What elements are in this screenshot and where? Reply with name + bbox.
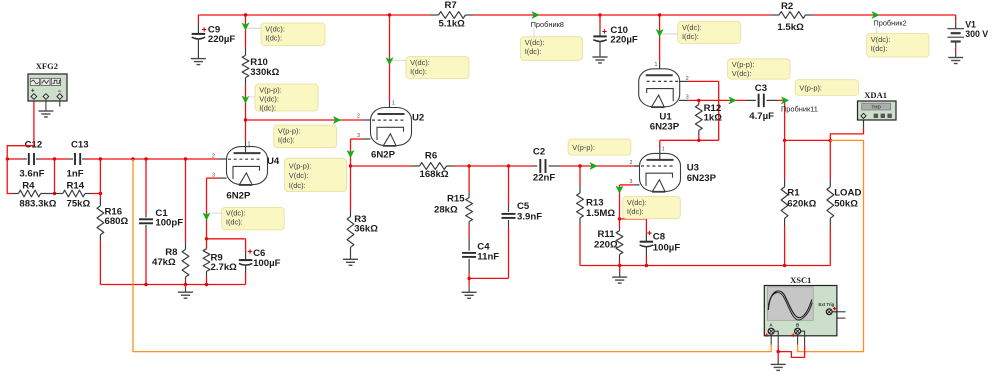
svg-text:5.1kΩ: 5.1kΩ bbox=[439, 19, 466, 30]
node dot R12 bottom bbox=[697, 139, 700, 142]
node dot output node bbox=[783, 139, 786, 142]
svg-text:R11: R11 bbox=[598, 229, 616, 240]
svg-text:I(dc):: I(dc): bbox=[289, 181, 306, 190]
label 6N23P of U1 bbox=[650, 122, 680, 133]
wire rail to U1 plate bbox=[659, 15, 661, 74]
oscilloscope XSC1 bbox=[764, 286, 845, 337]
svg-text:R13: R13 bbox=[586, 197, 604, 208]
ground below XSC1 bbox=[771, 364, 786, 370]
probe box V(dc)/I(dc) near C10 bbox=[521, 37, 583, 61]
wire R8 top section bbox=[185, 159, 187, 242]
svg-text:THD: THD bbox=[871, 105, 881, 110]
node dot R1 bottom bbox=[783, 264, 786, 267]
svg-text:330kΩ: 330kΩ bbox=[250, 67, 279, 78]
wire U3 plate up bbox=[659, 140, 661, 147]
svg-text:V(dc):: V(dc): bbox=[410, 58, 430, 67]
node dot R8 bottom bbox=[184, 283, 187, 286]
wire XFG2 to input loop bbox=[7, 99, 34, 194]
svg-text:V(dc):: V(dc): bbox=[627, 198, 647, 207]
svg-text:28kΩ: 28kΩ bbox=[434, 204, 458, 215]
svg-text:300 V: 300 V bbox=[965, 29, 988, 39]
label 6N2P of U2 bbox=[371, 150, 396, 161]
svg-text:4.7µF: 4.7µF bbox=[749, 111, 774, 122]
probe arrow right Пробник8 bbox=[532, 12, 539, 19]
node dot R11 bottom bbox=[618, 264, 621, 267]
svg-text:+: + bbox=[31, 88, 35, 94]
node dot R11 top bbox=[618, 217, 621, 220]
probe box V(dc)/I(dc) near C9-R10 bbox=[261, 23, 325, 46]
node dot R9 bottom bbox=[205, 283, 208, 286]
label XDA1 bbox=[864, 90, 887, 100]
probe arrow right Пробник2 bbox=[872, 12, 879, 19]
svg-text:I(dc):: I(dc): bbox=[226, 218, 243, 227]
node dot U4 plate branch bbox=[244, 118, 247, 121]
svg-text:3.6nF: 3.6nF bbox=[19, 169, 44, 180]
svg-text:1: 1 bbox=[655, 62, 658, 68]
wire U2 cathode bbox=[351, 139, 371, 166]
probe box V(p-p) above U3 grid bbox=[568, 139, 631, 155]
wire C1 top section bbox=[145, 159, 147, 214]
resistor R12 1k bbox=[695, 100, 722, 140]
distortion analyzer XDA1 bbox=[858, 101, 897, 120]
node dot rail-U1 bbox=[658, 13, 661, 16]
svg-text:1kΩ: 1kΩ bbox=[704, 113, 723, 124]
svg-text:Пробник11: Пробник11 bbox=[781, 104, 818, 113]
wire C13 node down bbox=[99, 159, 101, 199]
svg-text:V(p-p):: V(p-p): bbox=[799, 84, 822, 93]
capacitor C2 22nF bbox=[533, 147, 561, 184]
wire R16 to bottom rail bbox=[99, 241, 101, 285]
label 6N2P of U4 bbox=[226, 191, 251, 202]
svg-text:100pF: 100pF bbox=[155, 217, 183, 228]
resistor R6 168k bbox=[412, 151, 454, 181]
capacitor C13 1nF bbox=[55, 140, 89, 180]
svg-text:XSC1: XSC1 bbox=[790, 275, 811, 285]
svg-text:C13: C13 bbox=[71, 140, 89, 151]
svg-text:R1: R1 bbox=[787, 188, 800, 199]
resistor R1 620k bbox=[781, 140, 816, 265]
capacitor C9 220uF bbox=[192, 15, 236, 59]
svg-text:U2: U2 bbox=[412, 113, 424, 124]
wire R9 top to C6 bbox=[207, 239, 246, 252]
wire scope B leads bbox=[798, 331, 805, 345]
label U2 bbox=[412, 113, 424, 124]
svg-text:6N23P: 6N23P bbox=[687, 173, 717, 184]
svg-text:1: 1 bbox=[248, 142, 251, 148]
svg-text:V(dc):: V(dc): bbox=[682, 23, 702, 32]
svg-text:6N23P: 6N23P bbox=[650, 122, 680, 133]
svg-text:V(p-p):: V(p-p): bbox=[572, 143, 595, 152]
probe box V(p-p) right of C3 bbox=[795, 80, 858, 96]
triode U1 6N23P mirrored bbox=[639, 62, 689, 108]
resistor R15 28k bbox=[434, 166, 473, 226]
svg-text:220µF: 220µF bbox=[208, 34, 236, 45]
resistor R10 330k bbox=[242, 47, 280, 85]
resistor R14 75k bbox=[55, 180, 101, 209]
node dot C12-C13 bbox=[53, 157, 56, 160]
svg-text:R15: R15 bbox=[447, 194, 465, 205]
function generator XFG2 bbox=[28, 74, 67, 101]
label 6N23P of U3 bbox=[687, 173, 717, 184]
svg-text:11nF: 11nF bbox=[477, 252, 499, 263]
svg-text:75kΩ: 75kΩ bbox=[67, 199, 91, 210]
wire input row bbox=[7, 158, 218, 160]
svg-text:3: 3 bbox=[630, 179, 633, 185]
svg-text:C8: C8 bbox=[653, 232, 666, 243]
wire XFG2 minus stub bbox=[59, 99, 61, 107]
probe arrow right to U3 grid bbox=[590, 163, 597, 170]
svg-text:V(p-p):: V(p-p): bbox=[289, 162, 312, 171]
wire C5 top bbox=[508, 166, 510, 205]
svg-text:3: 3 bbox=[686, 95, 689, 101]
label Пробник8 bbox=[531, 20, 564, 37]
probe box V(p-p)/V(dc)/I(dc) below R10 bbox=[247, 84, 319, 112]
wire rail2 to LOAD bottom bbox=[620, 265, 831, 267]
probe leader line bbox=[247, 27, 262, 29]
node dot C8 bottom bbox=[645, 264, 648, 267]
node dot C13-R16 bbox=[99, 157, 102, 160]
wire R11 top to C8 bbox=[620, 219, 647, 233]
ground below V1 bbox=[948, 58, 963, 64]
svg-text:1.5MΩ: 1.5MΩ bbox=[586, 208, 615, 219]
wire bottom-left ground rail bbox=[100, 284, 245, 286]
ground bottom-left rail bbox=[178, 292, 193, 298]
node dot input left bbox=[6, 157, 9, 160]
wire XDA1 link bbox=[830, 120, 863, 140]
wire ground stub bottom-left bbox=[185, 285, 187, 293]
wire R15 to C4 bbox=[468, 226, 470, 237]
svg-text:XDA1: XDA1 bbox=[864, 90, 887, 100]
probe arrow down on U2 plate wire bbox=[386, 58, 393, 65]
capacitor C8 100uF bbox=[640, 231, 681, 266]
wire R10 to U4 plate bbox=[245, 85, 247, 141]
wire orange input to scope A bbox=[133, 159, 771, 352]
wire R13 to bottom rail bbox=[580, 224, 620, 266]
svg-text:50kΩ: 50kΩ bbox=[834, 199, 858, 210]
svg-text:36kΩ: 36kΩ bbox=[354, 223, 378, 234]
wire C4 bottom bbox=[468, 273, 470, 286]
wire U1 cathode row bbox=[679, 99, 746, 101]
label XFG2 bbox=[36, 61, 58, 71]
capacitor C12 3.6nF bbox=[19, 140, 44, 180]
svg-text:R6: R6 bbox=[425, 151, 437, 162]
label Пробник2 bbox=[873, 18, 906, 33]
ground below R3 bbox=[343, 259, 358, 265]
wire output row bbox=[351, 165, 640, 167]
wire U3 cathode bbox=[620, 185, 635, 219]
probe box V(dc)/I(dc) on U2 plate bbox=[392, 57, 469, 79]
label Пробник11 bbox=[781, 104, 818, 113]
resistor R2 bbox=[771, 1, 813, 33]
capacitor C3 4.7uF bbox=[746, 83, 777, 122]
probe arrow down on U4 cathode bbox=[203, 213, 210, 220]
svg-text:R14: R14 bbox=[67, 180, 85, 191]
resistor R4 883.3k bbox=[12, 180, 57, 209]
svg-text:V(p-p):: V(p-p): bbox=[278, 127, 301, 136]
resistor R8 47k bbox=[152, 242, 189, 281]
triode U2 6N2P bbox=[357, 101, 412, 147]
triode U4 6N2P bbox=[212, 141, 268, 185]
triode U3 6N23P bbox=[630, 146, 681, 192]
svg-text:V(dc):: V(dc): bbox=[871, 35, 891, 44]
capacitor C10 220uF bbox=[593, 15, 638, 57]
svg-text:V(dc):: V(dc): bbox=[259, 94, 279, 103]
svg-text:680Ω: 680Ω bbox=[105, 216, 129, 227]
wire rail to R10 bbox=[245, 15, 247, 47]
svg-text:220Ω: 220Ω bbox=[594, 240, 618, 251]
node dot R14 right bbox=[99, 192, 102, 195]
svg-text:100µF: 100µF bbox=[653, 243, 681, 254]
svg-text:220µF: 220µF bbox=[610, 34, 638, 45]
wire C3 to output node bbox=[777, 100, 785, 140]
resistor R11 220 bbox=[594, 219, 623, 266]
svg-text:I(dc):: I(dc): bbox=[871, 44, 888, 53]
wire top B+ rail left section bbox=[198, 14, 955, 16]
svg-text:2: 2 bbox=[357, 114, 360, 120]
svg-text:168kΩ: 168kΩ bbox=[420, 169, 449, 180]
capacitor C5 3.9nF bbox=[502, 201, 543, 228]
svg-text:Ext Trig: Ext Trig bbox=[819, 302, 835, 307]
svg-text:I(dc):: I(dc): bbox=[682, 32, 699, 41]
svg-text:V(dc):: V(dc): bbox=[226, 209, 246, 218]
svg-text:V(dc):: V(dc): bbox=[265, 24, 285, 33]
svg-text:U3: U3 bbox=[687, 162, 699, 173]
wire R12 bottom row bbox=[660, 81, 719, 140]
svg-text:47kΩ: 47kΩ bbox=[152, 257, 176, 268]
svg-text:V1: V1 bbox=[965, 20, 976, 30]
node dot scope ground node bbox=[777, 350, 780, 353]
wire output node to LOAD node bbox=[785, 139, 831, 141]
probe box V(p-p)/V(dc) near U1 bbox=[728, 59, 790, 79]
svg-text:1: 1 bbox=[392, 101, 395, 107]
svg-text:100µF: 100µF bbox=[253, 258, 281, 269]
probe arrow down on U1 plate wire bbox=[656, 30, 663, 37]
probe box V(dc)/I(dc) near U4 cathode bbox=[208, 207, 285, 230]
probe box V(dc)/I(dc) on U1 plate bbox=[678, 22, 741, 44]
svg-text:V(dc):: V(dc): bbox=[289, 171, 309, 180]
svg-text:U4: U4 bbox=[267, 156, 280, 167]
resistor R9 2.7k bbox=[203, 239, 237, 285]
ground below XFG2 bbox=[38, 111, 53, 117]
wire C6 bottom bbox=[245, 272, 247, 285]
svg-text:V(p-p):: V(p-p): bbox=[732, 60, 755, 69]
wire U1 grid bbox=[679, 80, 719, 82]
probe leader line U1 bbox=[661, 33, 678, 35]
svg-text:I(dc):: I(dc): bbox=[410, 67, 427, 76]
wire orange output to scope B bbox=[798, 140, 864, 351]
svg-text:I(dc):: I(dc): bbox=[525, 47, 542, 56]
svg-text:1.5kΩ: 1.5kΩ bbox=[777, 22, 804, 33]
probe arrow right Poбник11 bbox=[782, 97, 789, 104]
svg-text:620kΩ: 620kΩ bbox=[787, 199, 816, 210]
svg-text:R7: R7 bbox=[445, 0, 457, 11]
probe arrow down on R10 wire bbox=[242, 96, 249, 103]
svg-text:V(dc):: V(dc): bbox=[732, 69, 752, 78]
resistor R16 680 bbox=[97, 199, 129, 241]
node dot rail-C10 bbox=[598, 13, 601, 16]
svg-text:1: 1 bbox=[662, 147, 665, 153]
svg-text:Пробник2: Пробник2 bbox=[873, 18, 906, 27]
label U3 bbox=[687, 162, 699, 173]
node dot R15 top bbox=[467, 164, 470, 167]
probe arrow right before C3 bbox=[729, 97, 736, 104]
probe arrow down on U3 cathode bbox=[616, 186, 623, 193]
svg-text:XFG2: XFG2 bbox=[36, 61, 58, 71]
capacitor C4 11nF bbox=[462, 236, 499, 273]
svg-text:I(dc):: I(dc): bbox=[627, 207, 644, 216]
wire scope ground stub bbox=[777, 352, 779, 365]
node dot R8 top bbox=[184, 157, 187, 160]
wire U4 plate to U2 grid bbox=[246, 119, 371, 121]
ground below C9 bbox=[191, 59, 206, 65]
wire U4 cathode down bbox=[207, 178, 219, 239]
wire ground stub rail2 bbox=[619, 266, 621, 278]
node dot C1 bottom bbox=[144, 283, 147, 286]
svg-text:6N2P: 6N2P bbox=[371, 150, 396, 161]
ground below rail2 bbox=[612, 277, 627, 283]
label U1 bbox=[659, 112, 672, 123]
svg-text:C3: C3 bbox=[755, 83, 767, 94]
wire C4-C5 bottom link bbox=[469, 228, 508, 278]
probe box V(p-p)/V(dc)/I(dc) at U2 cathode node bbox=[285, 158, 347, 191]
svg-text:1nF: 1nF bbox=[67, 169, 84, 180]
svg-text:I(dc):: I(dc): bbox=[265, 33, 282, 42]
node dot output row left bbox=[349, 164, 352, 167]
node dot R13 top bbox=[578, 164, 581, 167]
svg-text:2.7kΩ: 2.7kΩ bbox=[211, 262, 238, 273]
svg-text:I(dc):: I(dc): bbox=[278, 136, 295, 145]
probe box V(dc)/I(dc) near V1 bbox=[867, 34, 930, 58]
svg-text:Пробник8: Пробник8 bbox=[531, 20, 564, 29]
node dot LOAD top node bbox=[829, 139, 832, 142]
wire R8 bottom bbox=[185, 281, 187, 285]
node dot C4 ground node bbox=[467, 277, 470, 280]
probe arrow down on U2 cathode bbox=[347, 151, 354, 158]
wire C1 bottom section bbox=[145, 229, 147, 285]
resistor R13 1.5M bbox=[577, 166, 616, 224]
wire scope B to ground jog bbox=[778, 345, 804, 358]
svg-text:22nF: 22nF bbox=[533, 173, 556, 184]
svg-text:6N2P: 6N2P bbox=[226, 191, 251, 202]
svg-text:2: 2 bbox=[630, 160, 633, 166]
svg-text:I(dc):: I(dc): bbox=[259, 103, 276, 112]
node dot rail-R10 bbox=[244, 13, 247, 16]
svg-text:C2: C2 bbox=[533, 147, 545, 158]
probe arrow down below rail at R10 bbox=[242, 23, 249, 30]
ground below C4 bbox=[462, 286, 477, 298]
node dot C5 top bbox=[507, 164, 510, 167]
probe box V(p-p)/I(dc) right of U4 plate bbox=[274, 125, 337, 148]
wire C12 node down bbox=[54, 159, 56, 194]
capacitor C6 100uF bbox=[239, 248, 281, 272]
probe arrow right to U2 grid bbox=[334, 117, 341, 124]
capacitor C1 100pF bbox=[139, 208, 183, 229]
wire scope A leads bbox=[771, 331, 778, 351]
svg-text:3: 3 bbox=[357, 133, 360, 139]
power source V1 300V bbox=[947, 15, 988, 58]
svg-text:R2: R2 bbox=[781, 1, 793, 12]
resistor R3 36k bbox=[347, 166, 378, 259]
label XSC1 bbox=[790, 275, 811, 285]
svg-text:R4: R4 bbox=[22, 180, 35, 191]
node dot orange branch bbox=[131, 157, 134, 160]
probe box V(dc)/I(dc) near U3 cathode bbox=[623, 197, 681, 219]
svg-text:3.9nF: 3.9nF bbox=[517, 211, 542, 222]
node dot C1 top bbox=[144, 157, 147, 160]
wire XFG2 common to ground bbox=[45, 99, 47, 111]
node dot R12 top bbox=[697, 99, 700, 102]
resistor R7 bbox=[430, 0, 473, 30]
svg-text:V(dc):: V(dc): bbox=[525, 38, 545, 47]
wire rail to U2 plate bbox=[389, 15, 391, 114]
node dot rail-U2 bbox=[388, 13, 391, 16]
svg-text:883.3kΩ: 883.3kΩ bbox=[19, 199, 56, 210]
node dot R4-R14 bbox=[53, 192, 56, 195]
label U4 bbox=[267, 156, 280, 167]
resistor LOAD 50k bbox=[827, 140, 862, 265]
node dot R9 top bbox=[205, 237, 208, 240]
ground below C10 bbox=[593, 57, 608, 63]
svg-text:LOAD: LOAD bbox=[834, 188, 861, 199]
svg-text:V(p-p):: V(p-p): bbox=[259, 85, 282, 94]
